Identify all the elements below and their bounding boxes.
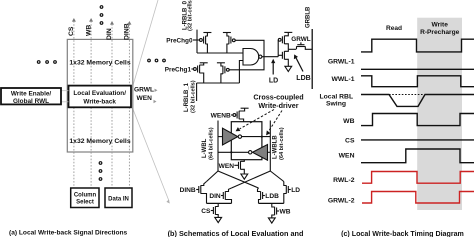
VDD rail for P0a [203, 32, 211, 34]
transistor N1 WEN NMOS: gate lead [234, 164, 238, 166]
VDD rail for WENB PMOS [241, 107, 249, 109]
net DINB: dashed wire [128, 24, 130, 188]
net DIN: arrowhead [110, 21, 114, 25]
waveform Local RBL swing [361, 95, 474, 107]
ground under LD inverter [285, 66, 292, 71]
svg-text:CS: CS [68, 26, 75, 36]
transistor P0a precharge PMOS: gate wire [193, 39, 199, 41]
waveform WB [361, 114, 474, 126]
svg-text:CS: CS [201, 208, 211, 215]
svg-text:DINB: DINB [180, 187, 196, 194]
svg-text:Select: Select [76, 200, 94, 206]
transistor M5: source lead to select bus [259, 200, 261, 204]
transistor P1b: channel and gate bars [222, 66, 224, 74]
transistor U2 PMOS: source to VDD [284, 32, 288, 35]
node LDB arrow (diagonal) [296, 58, 303, 72]
transistor M7: source to ground [272, 215, 275, 218]
transistor M2 DINB NMOS: gate lead [196, 189, 199, 191]
svg-text:Swing: Swing [326, 101, 346, 108]
transistor N1: drain to supply loop bottom [241, 160, 245, 162]
local evaluation / write-back block [69, 86, 132, 108]
transistor P0a: gate bubble [200, 39, 203, 42]
transistor U2 PMOS of LD inverter: gate bubble [278, 38, 281, 41]
transistor P2: drain to driver supply loop [239, 119, 244, 122]
waveform WEN [361, 149, 474, 163]
wire X-coupling: L-WBL to LDB drain [218, 171, 259, 188]
svg-text:GRBLB: GRBLB [306, 6, 312, 28]
svg-text:PreChg0: PreChg0 [166, 37, 193, 44]
transistor P0b: channel and gate bars [228, 36, 230, 44]
net WB: dashed wire [90, 21, 92, 188]
transistor U2 PMOS: drain lead [284, 44, 288, 50]
column select block [71, 188, 99, 208]
node LD arrow [272, 62, 274, 75]
svg-text:Write-driver: Write-driver [258, 101, 298, 110]
transistor P1b: source lead from VDD [221, 63, 223, 66]
transistor M3: gate and channel bars [222, 192, 224, 199]
transistor U2 NMOS: source lead to ground [284, 59, 288, 66]
transistor M5 LDB NMOS: gate lead [263, 195, 265, 197]
svg-text:Column: Column [74, 192, 97, 198]
tri-state driver T1 output wire to L-WBLB [242, 136, 271, 138]
svg-text:WEN: WEN [219, 163, 235, 170]
svg-text:GRWL-1: GRWL-1 [328, 58, 355, 65]
VDD rail for P1a [200, 62, 208, 64]
wire L-RBLB_1 bus [197, 82, 240, 84]
net CS: dashed wire [73, 21, 75, 188]
transistor M6: drain lead [284, 182, 287, 186]
svg-text:R-Precharge: R-Precharge [420, 29, 460, 36]
svg-text:L-WBLB: L-WBLB [273, 135, 279, 159]
transistor P1a: drain lead to L-RBLB_1 [200, 73, 204, 83]
svg-text:Write Enable/: Write Enable/ [11, 90, 52, 97]
transistor M1: gate stub [300, 42, 302, 44]
dashed annotation arrow to tri-state T1 [240, 110, 275, 130]
svg-text:LDB: LDB [265, 193, 279, 200]
svg-text:GRWL: GRWL [291, 36, 311, 43]
waveform GRWL-2 (red) [362, 192, 474, 204]
svg-text:Read: Read [386, 25, 402, 32]
svg-text:DIN: DIN [106, 28, 113, 40]
svg-text:(32 bit-cells): (32 bit-cells) [191, 80, 197, 113]
net DIN: dashed wire [111, 24, 113, 188]
wire inverter input riser [277, 40, 279, 57]
wire L-WBLB vertical [269, 121, 271, 172]
svg-text:WENB: WENB [211, 113, 231, 120]
svg-text:1x32 Memory Cells: 1x32 Memory Cells [69, 138, 130, 145]
svg-text:1x32 Memory Cells: 1x32 Memory Cells [69, 60, 130, 67]
transistor M7: gate and channel bars [276, 208, 278, 215]
svg-text:WEN: WEN [137, 95, 153, 102]
data in block [105, 188, 132, 208]
select bus (right group) [259, 202, 284, 204]
transistor M2: source lead to select bus [201, 194, 207, 204]
transistor M4 CS NMOS: gate lead [211, 210, 214, 212]
continuation dots above DIN column [100, 6, 103, 25]
transistor P0a: drain lead to L-RBLB_0 [206, 44, 208, 53]
transistor M5: drain lead [258, 188, 261, 192]
net CS: arrowhead [72, 18, 76, 22]
svg-text:Global RWL: Global RWL [13, 98, 49, 105]
svg-text:WB: WB [85, 25, 92, 36]
continuation dots between panels [148, 59, 166, 62]
write enable / global RWL block [1, 88, 61, 104]
transistor M7: drain from select bus [272, 203, 275, 207]
svg-text:(c) Local Write-back Timing Di: (c) Local Write-back Timing Diagram [341, 230, 464, 237]
transistor N1: source to ground [241, 169, 245, 174]
ground under WB NMOS [268, 218, 275, 223]
transistor U2 NMOS: drain lead [284, 49, 288, 51]
transistor M4: drain from select bus [215, 203, 218, 206]
wire L-RBLB_1 riser to NAND input [239, 61, 243, 84]
svg-text:(32 bit-cells): (32 bit-cells) [188, 0, 194, 31]
wire NAND output (node LD) [262, 56, 278, 58]
transistor M1 GRWL pass NMOS: channel bar (horizontal) [296, 46, 305, 48]
op NAND gate U1 body [243, 49, 259, 66]
junction dot on loop right edge [261, 136, 263, 138]
tri-state driver T2 triangle [253, 145, 268, 161]
ground under CS NMOS [215, 217, 222, 222]
transistor M3: drain lead [225, 188, 231, 192]
wire L-RBLB_0 bus to NAND input [197, 52, 243, 54]
svg-text:Write-back: Write-back [83, 99, 116, 106]
svg-text:(64 bit-cells): (64 bit-cells) [279, 127, 285, 160]
transistor M5: gate and channel bars [262, 192, 264, 199]
transistor P1a: source lead to VDD [200, 63, 204, 65]
continuation dots left of array [37, 61, 56, 64]
transistor P2: gate bubble [233, 114, 236, 117]
net WB: arrowhead [89, 18, 93, 22]
svg-text:Local Evaluation/: Local Evaluation/ [73, 90, 126, 97]
svg-text:(a) Local Write-back Signal Di: (a) Local Write-back Signal Directions [9, 229, 128, 236]
zoom wedge line lower with arrowhead [133, 108, 170, 201]
select bus (left group) [207, 202, 232, 204]
transistor P2: source to VDD [239, 108, 245, 111]
VDD rail for LD inverter [284, 31, 292, 33]
wire GRBLB vertical [311, 29, 313, 89]
svg-text:WB: WB [343, 118, 354, 125]
wire L-RBLB_0 vertical [196, 30, 198, 53]
transistor M6 LD NMOS: gate lead [288, 189, 291, 191]
transistor M7 WB NMOS: gate lead [277, 210, 280, 212]
transistor M1: gate bar [297, 44, 304, 46]
svg-text:Write: Write [432, 21, 449, 28]
waveform CS (flat) [361, 139, 474, 141]
transistor P1a: gate bubble [194, 68, 197, 71]
transistor M2: drain lead [201, 182, 207, 186]
svg-text:(b) Schematics of Local Evalua: (b) Schematics of Local Evaluation and [168, 229, 304, 237]
gray connector wires between write-enable box and block [61, 90, 69, 92]
svg-text:LD: LD [269, 77, 278, 84]
svg-text:Local RBL: Local RBL [319, 94, 353, 101]
wire L-RBLB_1 vertical [196, 83, 198, 101]
transistor P1b: drain lead to L-RBLB_1 [221, 74, 223, 83]
transistor P2 WENB PMOS: gate wire [231, 114, 233, 116]
tri-state driver T2 output wire to L-WBL [218, 151, 249, 153]
continuation dots below array [99, 162, 102, 181]
ground under WEN NMOS [241, 174, 248, 179]
transistor U2 PMOS: gate and channel bars [281, 36, 283, 43]
transistor P0a: gate and channel bars [203, 37, 205, 44]
transistor M6: source lead to select bus [284, 194, 287, 204]
transistor U2 NMOS of LD inverter: gate lead [278, 54, 282, 56]
tri-state driver T2 input wire [268, 151, 271, 153]
svg-text:CS: CS [345, 138, 355, 145]
transistor M1: source/drain leads [296, 47, 298, 50]
svg-text:L-RBLB_1: L-RBLB_1 [184, 82, 190, 112]
zoom wedge line upper (from Local Evaluation box to panel b) [133, 0, 159, 87]
svg-text:GRWL-2: GRWL-2 [328, 197, 355, 204]
transistor M3 DIN NMOS: gate lead [221, 195, 223, 197]
transistor P0b: drain lead to L-RBLB_0 [227, 44, 229, 53]
wire L-WBL to DINB drain [207, 171, 219, 182]
waveform WWL-1 [361, 76, 474, 87]
svg-text:DINB: DINB [124, 23, 131, 40]
svg-text:WEN: WEN [339, 153, 355, 160]
memory column array box [67, 39, 133, 152]
transistor P1b keeper PMOS: VDD rail [217, 62, 225, 64]
svg-text:DIN: DIN [209, 193, 221, 200]
svg-text:(64 bit-cells): (64 bit-cells) [209, 127, 215, 160]
tri-state driver T2 output bubble [249, 151, 252, 154]
waveform clock pulse [361, 39, 474, 52]
node LDB wire to pass gate [288, 48, 296, 50]
junction dot on loop left edge [230, 151, 232, 153]
wire keeper feedback from NAND output to both keeper gates [229, 40, 264, 70]
transistor M4: gate and channel bars [212, 207, 214, 214]
op NAND gate U1 output bubble [259, 55, 262, 58]
waveform Local RBL precharge reference (dotted) [389, 94, 424, 96]
svg-text:RWL-2: RWL-2 [333, 177, 355, 184]
transistor M4: source to ground [215, 215, 218, 218]
svg-text:WWL-1: WWL-1 [331, 76, 354, 83]
svg-text:LDB: LDB [296, 75, 310, 82]
transistor N1: gate and channel bars [238, 162, 240, 169]
tri-state driver T1 triangle [223, 128, 238, 145]
transistor M3: source lead to select bus [225, 200, 231, 204]
write-driver supply loop [231, 122, 262, 160]
write r-precharge shaded region [417, 18, 462, 210]
net DINB: arrowhead [127, 21, 131, 25]
dashed annotation arrow to tri-state T2 [269, 111, 283, 132]
transistor P0b: gate bubble (right side) [232, 39, 235, 42]
svg-text:GRWL: GRWL [134, 86, 154, 93]
transistor P2: gate and channel bars [236, 112, 238, 119]
svg-text:WB: WB [280, 209, 291, 216]
transistor P1b: gate bubble (right side) [226, 68, 229, 71]
wire L-WBLB to LD drain [270, 171, 284, 182]
waveform RWL-2 (red) [362, 172, 474, 184]
wire L-WBL vertical [217, 121, 219, 172]
wire X-coupling: L-WBLB to DIN drain [232, 171, 271, 188]
waveform GRWL-1 (flat) [361, 68, 474, 70]
transistor U2 NMOS: gate and channel bars [281, 52, 283, 59]
tri-state driver T1 input wire [218, 136, 223, 138]
svg-text:PreChg1: PreChg1 [165, 66, 192, 73]
transistor P0b: source lead from VDD [227, 33, 229, 37]
transistor P1a: gate and channel bars [197, 66, 199, 73]
svg-text:Data IN: Data IN [108, 196, 129, 202]
transistor M6: gate and channel bars [287, 186, 289, 193]
svg-text:LD: LD [291, 187, 300, 194]
tri-state driver T1 output bubble [238, 135, 241, 138]
transistor P1a precharge PMOS: gate wire [191, 68, 193, 70]
transistor P0a: source lead to VDD [206, 33, 208, 37]
transistor P0b keeper PMOS: VDD rail [223, 32, 231, 34]
transistor M2: gate and channel bars [198, 186, 200, 193]
svg-text:L-WBL: L-WBL [202, 138, 208, 158]
